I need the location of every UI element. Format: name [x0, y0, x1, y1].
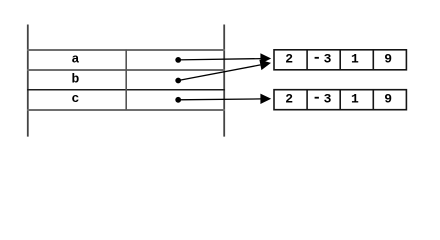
- svg-text:1: 1: [351, 52, 359, 67]
- svg-text:3: 3: [324, 92, 332, 107]
- svg-text:b: b: [71, 71, 79, 86]
- svg-text:a: a: [71, 51, 79, 66]
- svg-text:1: 1: [351, 92, 359, 107]
- svg-text:2: 2: [285, 52, 293, 67]
- svg-text:3: 3: [324, 52, 332, 67]
- svg-text:c: c: [71, 91, 79, 106]
- svg-text:9: 9: [384, 52, 392, 67]
- svg-text:9: 9: [384, 92, 392, 107]
- svg-text:2: 2: [285, 92, 293, 107]
